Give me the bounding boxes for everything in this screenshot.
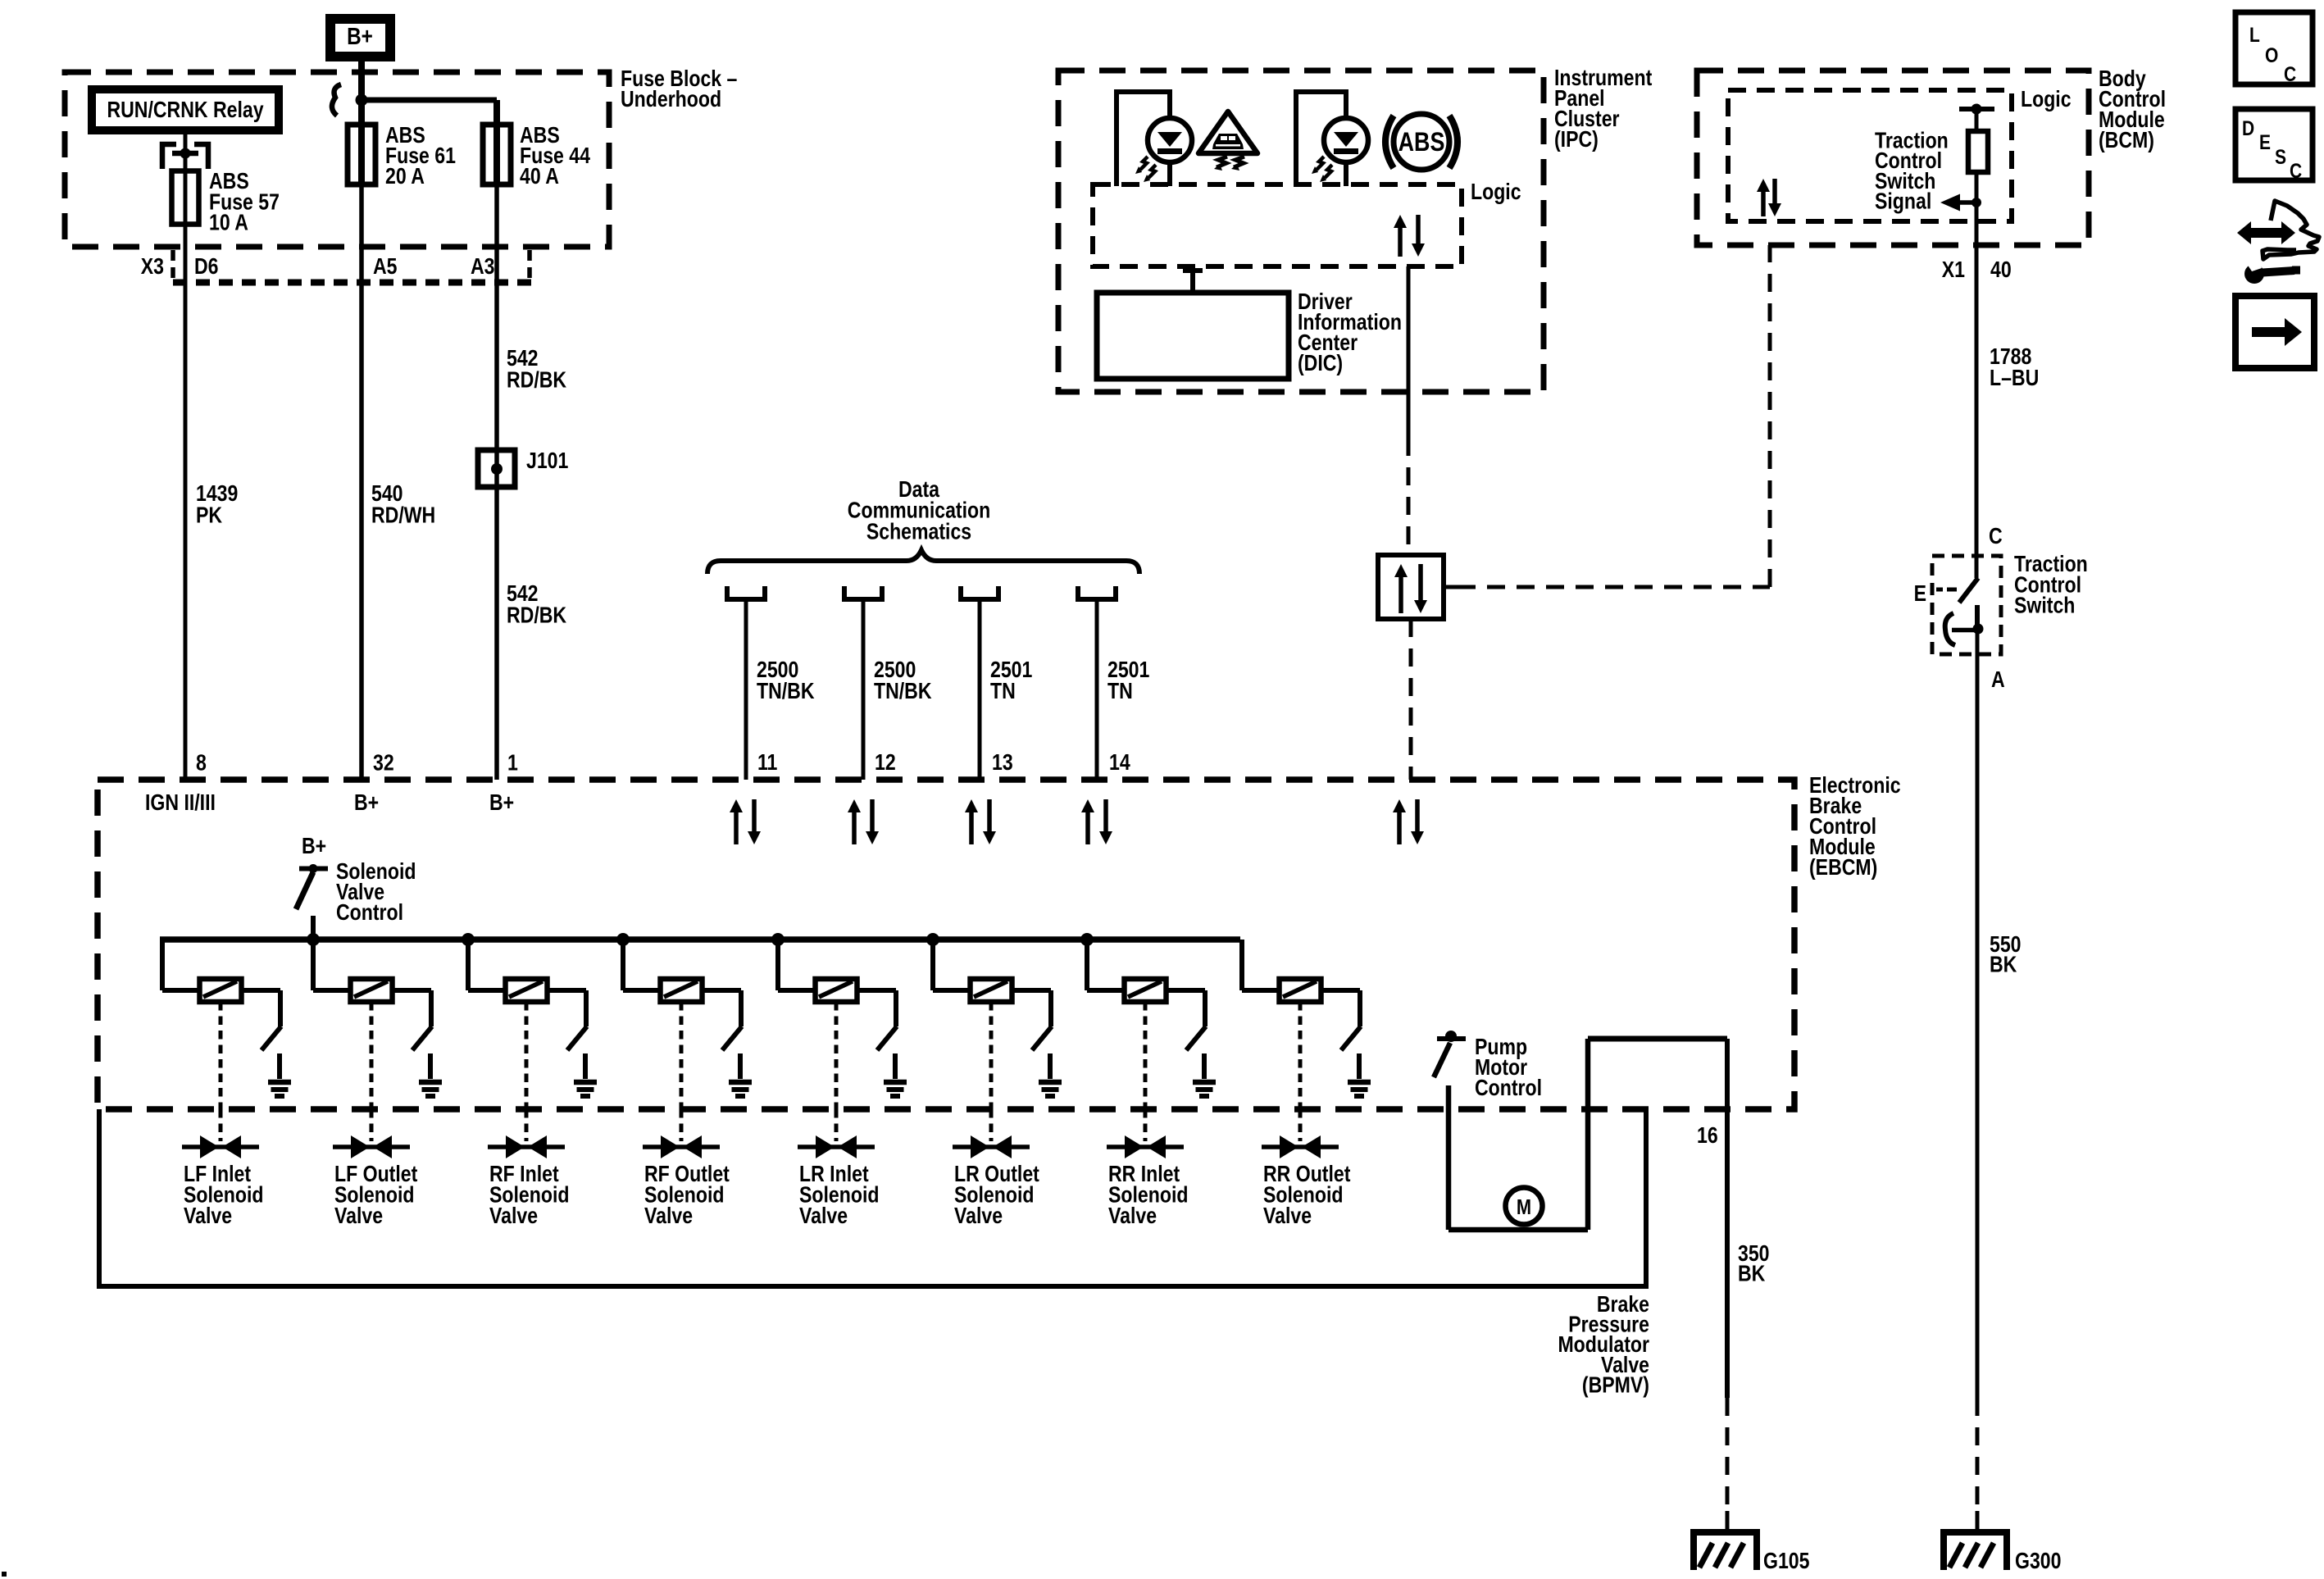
svg-text:TN/BK: TN/BK <box>757 679 815 703</box>
svg-text:E: E <box>2259 130 2271 153</box>
svg-text:20 A: 20 A <box>385 164 425 189</box>
svg-text:Logic: Logic <box>2021 87 2072 111</box>
svg-text:X3: X3 <box>141 254 164 279</box>
svg-text:B+: B+ <box>302 834 326 858</box>
svg-text:S: S <box>2275 145 2286 168</box>
svg-text:E: E <box>1914 581 1926 606</box>
svg-text:B+: B+ <box>347 23 373 49</box>
svg-text:14: 14 <box>1109 750 1130 775</box>
svg-text:RD/BK: RD/BK <box>507 368 567 393</box>
svg-text:Switch: Switch <box>2014 594 2075 618</box>
svg-text:B+: B+ <box>354 790 379 815</box>
svg-text:Signal: Signal <box>1875 189 1931 214</box>
svg-text:TN: TN <box>1107 679 1133 703</box>
svg-text:12: 12 <box>875 750 896 775</box>
svg-text:G300: G300 <box>2015 1549 2061 1573</box>
svg-text:Valve: Valve <box>1108 1204 1157 1228</box>
svg-text:Control: Control <box>336 900 403 925</box>
svg-text:X1: X1 <box>1942 257 1965 282</box>
svg-text:Schematics: Schematics <box>866 520 971 544</box>
svg-text:D6: D6 <box>194 254 219 279</box>
svg-text:Valve: Valve <box>954 1204 1003 1228</box>
svg-text:(BCM): (BCM) <box>2099 128 2154 152</box>
svg-text:RUN/CRNK Relay: RUN/CRNK Relay <box>107 98 263 122</box>
svg-text:40 A: 40 A <box>520 164 559 189</box>
svg-text:Underhood: Underhood <box>621 87 721 111</box>
svg-text:16: 16 <box>1697 1123 1718 1148</box>
svg-text:(BPMV): (BPMV) <box>1582 1373 1649 1398</box>
svg-text:Valve: Valve <box>1263 1204 1312 1228</box>
svg-text:Valve: Valve <box>489 1204 538 1228</box>
svg-text:O: O <box>2265 43 2278 66</box>
svg-text:A5: A5 <box>373 254 398 279</box>
svg-text:J101: J101 <box>526 448 568 473</box>
svg-text:M: M <box>1517 1195 1531 1219</box>
svg-text:BK: BK <box>1738 1262 1766 1286</box>
svg-text:10 A: 10 A <box>209 211 248 235</box>
svg-text:C: C <box>2290 159 2302 182</box>
svg-text:40: 40 <box>1990 257 2012 282</box>
svg-text:ABS: ABS <box>1398 128 1445 157</box>
svg-text:(IPC): (IPC) <box>1554 127 1599 152</box>
svg-text:(EBCM): (EBCM) <box>1809 855 1877 880</box>
svg-text:32: 32 <box>373 751 394 776</box>
svg-text:IGN II/III: IGN II/III <box>145 790 216 815</box>
svg-text:TN: TN <box>990 679 1016 703</box>
svg-text:B+: B+ <box>489 790 514 815</box>
svg-text:BK: BK <box>1990 953 2017 977</box>
svg-text:PK: PK <box>196 503 223 528</box>
svg-text:13: 13 <box>992 750 1013 775</box>
svg-text:A3: A3 <box>471 254 495 279</box>
svg-text:RD/WH: RD/WH <box>371 503 435 528</box>
svg-text:11: 11 <box>757 750 777 775</box>
svg-text:Valve: Valve <box>799 1204 848 1228</box>
svg-text:8: 8 <box>196 751 207 776</box>
svg-text:Valve: Valve <box>184 1204 232 1228</box>
svg-text:Logic: Logic <box>1471 180 1521 204</box>
svg-text:L: L <box>2249 23 2260 46</box>
svg-text:D: D <box>2242 116 2254 139</box>
svg-text:Control: Control <box>1475 1076 1542 1100</box>
svg-text:TN/BK: TN/BK <box>874 679 932 703</box>
svg-text:C: C <box>1989 524 2003 548</box>
svg-text:A: A <box>1991 667 2005 692</box>
svg-text:(DIC): (DIC) <box>1298 351 1343 375</box>
svg-text:Valve: Valve <box>644 1204 693 1228</box>
svg-text:Valve: Valve <box>334 1204 383 1228</box>
svg-text:RD/BK: RD/BK <box>507 603 567 628</box>
svg-text:G105: G105 <box>1763 1549 1809 1573</box>
svg-text:1: 1 <box>507 751 518 776</box>
svg-text:C: C <box>2284 62 2296 85</box>
svg-text:L–BU: L–BU <box>1990 366 2039 390</box>
